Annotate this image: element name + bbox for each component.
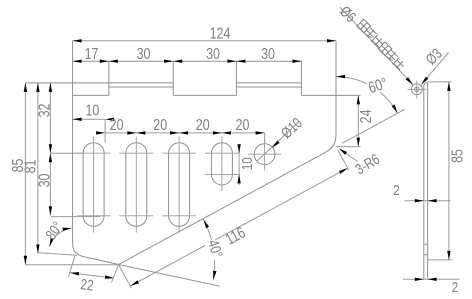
side view left edge [423, 87, 425, 279]
dim 32 bottom arrow [49, 144, 52, 153]
part diagonal edge (116) [119, 152, 326, 264]
dim row arrow pair at 173.2 (left-pointing) [173, 60, 182, 63]
side view tick (corner projection) [424, 243, 428, 245]
slot 2 (10 wide, 30 long) [126, 143, 147, 227]
40deg arc top arrow [203, 219, 209, 228]
part bottom edge (22) [86, 257, 119, 264]
pipe horizontal centerline [408, 88, 427, 90]
slot 4 top arc-center tick [205, 152, 239, 154]
leader line for D10 [257, 122, 300, 162]
dim 85 top arrow [24, 83, 27, 92]
flange inner line y=87 left [109, 86, 173, 88]
hole D10 [254, 144, 275, 165]
dim row arrow pair at 108.8 (right-pointing) [100, 60, 109, 63]
40deg ext: bottom edge extended past vertex [119, 265, 220, 287]
dim 124 left arrow [73, 39, 82, 42]
dim 116 ext from corner [338, 150, 349, 170]
ext hole centerline to dim row [264, 133, 266, 144]
slot 4 vertical centerline [221, 137, 223, 192]
flange inner line y=87 right [236, 86, 301, 88]
svg-text:30: 30 [206, 46, 220, 64]
dim 116 upper arrow [339, 168, 348, 174]
part right edge (with ext to 124 dim) [335, 41, 337, 135]
dim 30v bottom arrow [49, 206, 52, 215]
dim row last arrow [292, 60, 301, 63]
dim 20 pair left-point at 179.1 [179, 131, 188, 134]
svg-text:81: 81 [22, 160, 40, 174]
svg-text:2: 2 [393, 182, 400, 199]
leader line D3 [421, 53, 448, 85]
part left edge (with ext to 124 dim) [72, 41, 74, 244]
leader line D6 welded pipe [340, 7, 413, 85]
dim 22 line [70, 273, 114, 278]
dim 30v top arrow [49, 153, 52, 162]
dim 81 extension (bottom edge extended) [37, 253, 77, 256]
dim 81 line [37, 83, 39, 254]
leader arrow D6 [406, 77, 413, 85]
leader arrow 3-R6 to corner [339, 148, 347, 155]
dim 85 side bottom ext [428, 259, 453, 261]
svg-text:17: 17 [85, 46, 99, 64]
svg-text:30: 30 [36, 174, 54, 188]
svg-text:32: 32 [36, 104, 54, 118]
slot 3 vertical centerline [178, 137, 180, 233]
svg-text:20: 20 [110, 116, 124, 134]
80deg arc [50, 228, 72, 247]
dim 24 top arrow [357, 95, 360, 104]
slot 3 top arc-center tick [162, 152, 196, 154]
dim row arrow pair at 173.2 (right-pointing) [164, 60, 173, 63]
svg-text:20: 20 [153, 116, 167, 134]
dim 20 pair right-point at 179.1 [170, 131, 179, 134]
svg-text:30: 30 [261, 46, 275, 64]
leader line 3-R6 [341, 150, 358, 162]
hole horizontal centerline [248, 153, 281, 155]
tab vertical edge x=236.4 [235, 61, 237, 95]
dim 124 line [73, 40, 336, 42]
dim row arrow pair at 236.4 (right-pointing) [227, 60, 236, 63]
dim 20 arrow at 105 [96, 131, 105, 134]
side view top edge with fillet [424, 83, 428, 87]
slot 1 bottom arc-center tick [77, 215, 111, 217]
60deg arc [336, 77, 398, 114]
ext line slot top centers [51, 152, 84, 154]
dim 20 row line [105, 132, 265, 134]
40deg arc bottom arrow [213, 271, 216, 280]
60deg arrow at vertical edge [336, 75, 345, 78]
slot 1 top arc-center tick [77, 152, 111, 154]
dim 32 top arrow [49, 83, 52, 92]
80deg arrow upper-right [62, 228, 71, 231]
svg-text:10: 10 [85, 102, 99, 120]
label D6 pipe kanji glyph 3 [378, 42, 392, 56]
dim 17 left arrow [73, 60, 82, 63]
slot 2 vertical centerline [135, 137, 137, 233]
dim 85 side line [448, 82, 450, 260]
hole vertical centerline [264, 138, 266, 171]
dim 32/30 shared line [49, 83, 51, 216]
dim 85 side top ext [428, 81, 452, 83]
slot 1 vertical centerline [93, 137, 95, 233]
side view tick (bottom corner projection) [424, 254, 428, 256]
dim 81 bottom arrow [36, 245, 39, 254]
ext line slot bottom centers [51, 216, 100, 218]
dim 85 bottom arrow [24, 256, 27, 265]
dim 85 bottom extension line [26, 264, 119, 266]
slot 4 (10 wide, 10 long) [211, 143, 232, 185]
tab2 bottom edge [173, 94, 236, 96]
dim 116 ext from vertex [119, 265, 132, 289]
dim 24 bottom arrow [357, 138, 360, 147]
tab vertical edge x=108.8 [108, 61, 110, 95]
dim 24 bottom extension from corner [336, 146, 361, 148]
dim 22 left arrow [70, 272, 79, 275]
dim 85 side bottom arrow [447, 251, 450, 260]
dim 81 top arrow [36, 83, 39, 92]
label D6 pipe kanji glyph 0 [357, 19, 371, 33]
40deg text background [204, 239, 220, 261]
svg-text:20: 20 [196, 116, 210, 134]
tab3 bottom edge + ext for 24 dim [301, 94, 360, 96]
dim row arrow pair at 236.4 (left-pointing) [236, 60, 245, 63]
dim 20 pair left-point at 221.9 [222, 131, 231, 134]
40deg arc [203, 219, 214, 279]
dim 20 last arrow at hole center [256, 131, 265, 134]
dim 10v bottom arrow (outside, pointing up) [237, 174, 240, 183]
slot 2 bottom arc-center tick [119, 215, 153, 217]
dim 20 pair left-point at 136.3 [136, 131, 145, 134]
slot 3 (10 wide, 30 long) [169, 143, 190, 227]
dim 20 pair right-point at 221.9 [213, 131, 222, 134]
dim 2 top left-pointing arrow [428, 199, 437, 202]
slot 2 top arc-center tick [119, 152, 153, 154]
60deg ext: diagonal extended past corner [342, 109, 404, 143]
dim 2 top line [405, 200, 451, 202]
label D6 pipe kanji glyph 2 [371, 35, 385, 49]
dim 10v top arrow (outside, pointing down) [237, 144, 240, 153]
svg-text:10: 10 [239, 157, 256, 170]
svg-text:24: 24 [358, 109, 376, 123]
tab1 bottom edge [73, 94, 109, 96]
dim 22 ext from corner [69, 255, 76, 277]
fillet R6 bottom-left corner [73, 244, 86, 257]
pipe end view D6/D3 [411, 84, 422, 95]
dim 2 bottom right-pointing arrow [415, 278, 424, 281]
60deg arrow at diagonal ext [392, 105, 398, 114]
dim 116 lower arrow [130, 280, 139, 286]
label D6 pipe kanji glyph 4 [385, 49, 399, 63]
dim 85 line [24, 83, 26, 265]
dim 116 line [130, 168, 347, 286]
dim 10v line at slot 4 [238, 144, 240, 185]
dim 20 pair right-point at 136.3 [127, 131, 136, 134]
svg-text:30: 30 [137, 46, 151, 64]
pipe vertical centerline [416, 81, 418, 99]
dim 85 side top arrow [447, 82, 450, 91]
dim 22 ext from vertex [112, 265, 119, 283]
dim row arrow pair at 108.8 (left-pointing) [109, 60, 118, 63]
dim 10 line [73, 118, 106, 120]
svg-text:85: 85 [449, 149, 467, 163]
ext line slot1 right edge [104, 119, 106, 142]
pipe center dot [416, 88, 418, 90]
60deg text background [365, 78, 390, 96]
dim 22 right arrow [105, 275, 114, 278]
slot 3 bottom arc-center tick [162, 215, 196, 217]
tab vertical edge x=301.4 [300, 61, 302, 95]
dim 2 bottom line [403, 278, 460, 280]
leader arrow D3 [421, 77, 428, 85]
tab vertical edge x=173.2 [172, 61, 174, 95]
dim 10 right arrow (outside style) [105, 118, 114, 121]
leader arrow at hole edge [272, 141, 280, 148]
label D6 pipe kanji glyph 5 [392, 58, 406, 72]
80deg arrow lower-left [50, 238, 54, 247]
side view right edge [427, 83, 429, 279]
dim 2 top right-pointing arrow [415, 199, 424, 202]
flange top line y=82.9 (also ext for left dims) [25, 82, 173, 84]
slot 4 bottom arc-center tick [205, 173, 239, 175]
svg-text:20: 20 [236, 116, 250, 134]
tab top edges / 17-30-30-30 dim line y=61 [73, 60, 302, 62]
dim 124 right arrow [327, 39, 336, 42]
dim 10 left arrow [73, 118, 82, 121]
slot 1 (10 wide, 30 long) [83, 143, 104, 227]
dim 2 bottom left-pointing arrow [428, 278, 437, 281]
svg-text:124: 124 [210, 25, 231, 43]
svg-text:2: 2 [452, 279, 459, 296]
dim 24 line [357, 95, 359, 146]
svg-text:22: 22 [80, 276, 95, 294]
fillet R6 top-right corner [326, 135, 336, 152]
label D6 pipe kanji glyph 1 [364, 26, 378, 40]
flange top line right section [236, 82, 301, 84]
